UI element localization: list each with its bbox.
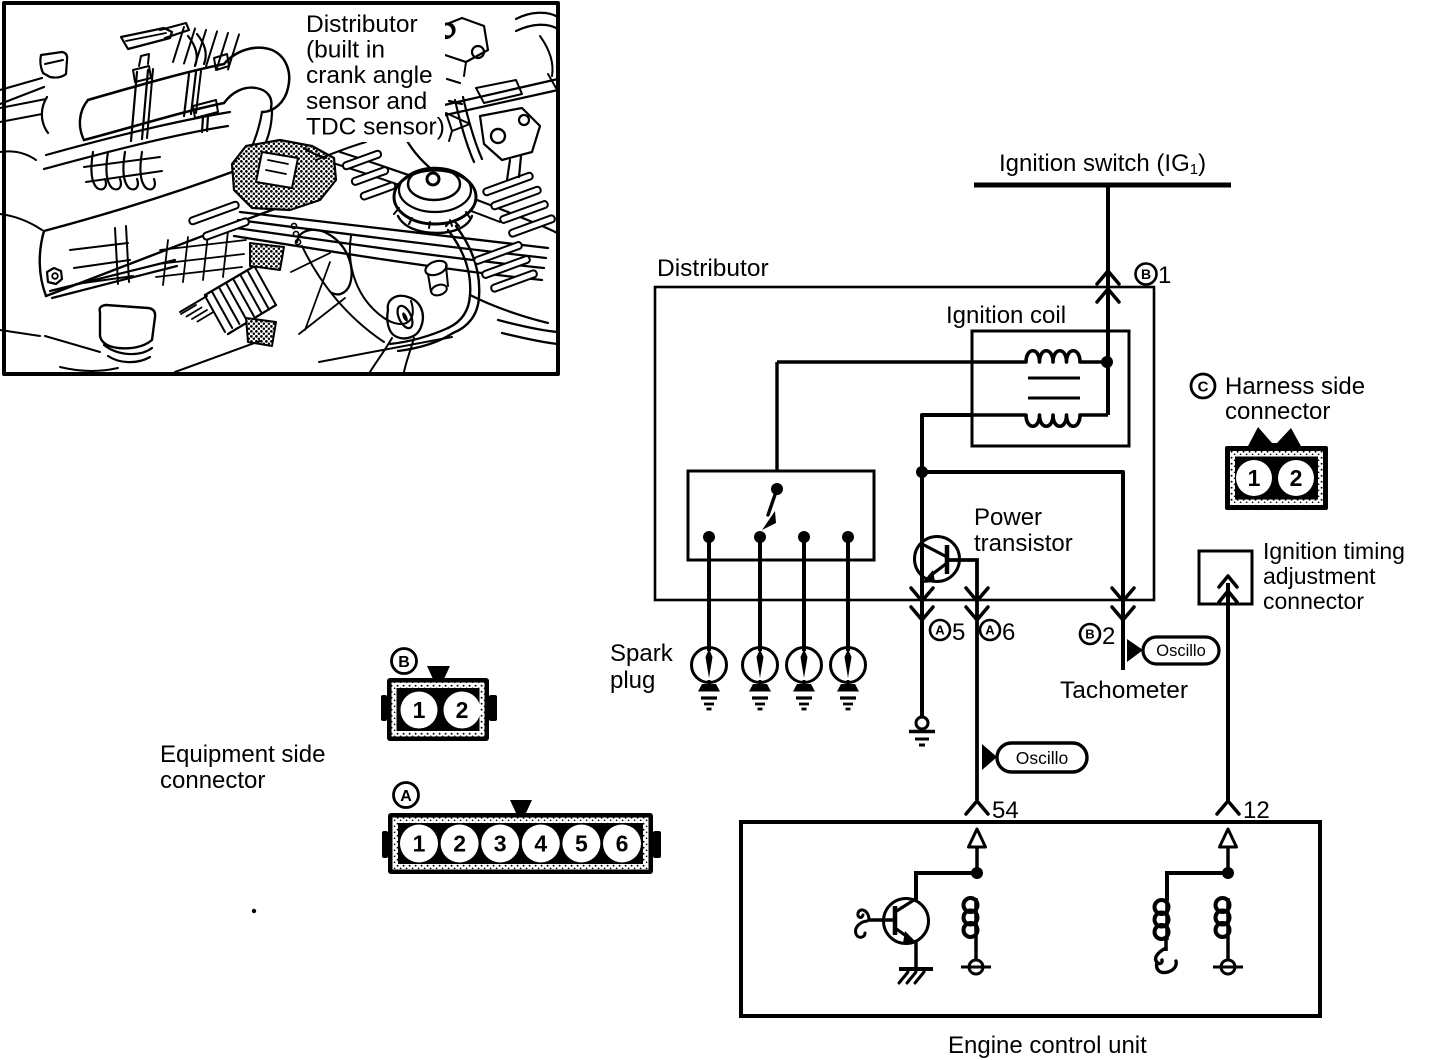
svg-text:Ignition switch (IG1): Ignition switch (IG1) bbox=[999, 150, 1206, 178]
ECU transistor base lead bbox=[869, 918, 895, 921]
svg-text:2: 2 bbox=[453, 831, 466, 857]
ECU transistor bbox=[884, 899, 929, 944]
ignition coil primary winding bbox=[777, 351, 1104, 362]
svg-text:54: 54 bbox=[992, 797, 1019, 824]
terminal at R1 bbox=[969, 960, 983, 974]
svg-text:C: C bbox=[1198, 378, 1209, 395]
rotor box bbox=[688, 471, 874, 560]
svg-text:Harness side: Harness side bbox=[1225, 373, 1365, 400]
ECU resistor R1 bbox=[974, 898, 978, 938]
wire pin12 to node bbox=[1226, 847, 1230, 873]
svg-text:transistor: transistor bbox=[974, 530, 1073, 557]
distributor body (dark) bbox=[232, 140, 336, 210]
oscillo probe tag at B2 wire bbox=[1127, 639, 1143, 662]
label A6 bbox=[980, 620, 1000, 640]
label B (equipment connector) bbox=[392, 649, 417, 674]
svg-text:6: 6 bbox=[1002, 619, 1015, 646]
power transistor symbol bbox=[915, 537, 960, 582]
terminal at R3 bbox=[1221, 960, 1235, 974]
ECU resistor R3 bbox=[1226, 898, 1230, 938]
svg-text:Tachometer: Tachometer bbox=[1060, 677, 1188, 704]
stray scan dot bbox=[252, 909, 256, 913]
label B2 bbox=[1080, 624, 1100, 644]
svg-text:2: 2 bbox=[456, 697, 469, 723]
wire node to transistor collector bbox=[916, 873, 977, 900]
svg-text:(built in: (built in bbox=[306, 37, 385, 64]
node: transistor junction bbox=[916, 466, 928, 478]
photo frame bbox=[4, 3, 558, 374]
connector arrows A5 bbox=[911, 588, 933, 601]
connector arrow B1 (double chevron) bbox=[1097, 271, 1119, 284]
harness connector C bbox=[1247, 427, 1302, 448]
svg-text:Equipment side: Equipment side bbox=[160, 741, 325, 768]
wire: pin 12 to timing connector bbox=[1226, 583, 1230, 801]
wire: collector out to A6 bbox=[947, 560, 977, 800]
svg-text:6: 6 bbox=[616, 831, 629, 857]
spark plugs bbox=[692, 648, 727, 683]
svg-text:5: 5 bbox=[575, 831, 588, 857]
svg-text:A: A bbox=[985, 623, 995, 638]
svg-text:crank angle: crank angle bbox=[306, 62, 433, 89]
equipment connector B bbox=[427, 666, 450, 679]
svg-text:Ignition coil: Ignition coil bbox=[946, 302, 1066, 329]
connector arrows B2 bbox=[1112, 588, 1134, 601]
ECU resistor R2 bbox=[1165, 900, 1169, 940]
spark plug wires bbox=[240, 212, 548, 248]
label B1 bbox=[1136, 264, 1157, 285]
svg-text:A: A bbox=[400, 788, 412, 805]
svg-text:connector: connector bbox=[1263, 588, 1364, 614]
svg-text:1: 1 bbox=[1248, 465, 1261, 491]
spark plug wires bbox=[707, 537, 711, 651]
distributor box bbox=[655, 287, 1154, 600]
wire: coil primary to rotor bbox=[775, 362, 778, 471]
pin 54 input triangle bbox=[969, 829, 986, 847]
wire: secondary to power transistor bbox=[922, 415, 972, 472]
wire node to R2 bbox=[1167, 873, 1228, 900]
ground: power transistor emitter body ground bbox=[916, 717, 928, 729]
svg-text:Engine control unit: Engine control unit bbox=[948, 1032, 1147, 1059]
pin 12 input triangle bbox=[1220, 829, 1237, 847]
node 54 bbox=[971, 867, 983, 879]
equipment connector A bbox=[510, 800, 532, 813]
engine bay photo inset bbox=[0, 2, 558, 374]
svg-text:3: 3 bbox=[494, 831, 507, 857]
svg-text:12: 12 bbox=[1243, 797, 1270, 824]
connector arrows A6 bbox=[966, 588, 988, 601]
oscillo probe tag at A6 wire bbox=[982, 744, 997, 770]
label A5 bbox=[930, 620, 950, 640]
svg-text:sensor and: sensor and bbox=[306, 88, 427, 115]
rotor arm bbox=[771, 483, 783, 495]
svg-text:TDC sensor): TDC sensor) bbox=[306, 113, 445, 140]
oil filler cap bbox=[394, 170, 476, 224]
svg-text:1: 1 bbox=[413, 697, 426, 723]
label C (harness connector) bbox=[1191, 374, 1215, 398]
svg-text:B: B bbox=[398, 654, 410, 671]
svg-text:Distributor: Distributor bbox=[306, 11, 418, 38]
node 12 bbox=[1222, 867, 1234, 879]
svg-text:connector: connector bbox=[1225, 398, 1330, 425]
coil core lines bbox=[1028, 377, 1080, 380]
svg-text:Distributor: Distributor bbox=[657, 255, 769, 282]
svg-text:Oscillo: Oscillo bbox=[1156, 642, 1206, 660]
throttle linkage bbox=[437, 18, 488, 62]
svg-text:B: B bbox=[1141, 266, 1151, 282]
svg-text:5: 5 bbox=[952, 619, 965, 646]
ECU chassis ground bbox=[899, 967, 933, 971]
svg-text:Power: Power bbox=[974, 504, 1042, 531]
ignition coil box bbox=[972, 331, 1129, 446]
pin 54 chevron bbox=[966, 801, 988, 814]
wire: ignition switch to coil bbox=[1106, 185, 1110, 415]
wire: emitter down through A5 bbox=[920, 472, 924, 716]
pin 12 chevron bbox=[1217, 801, 1239, 814]
svg-text:1: 1 bbox=[413, 831, 426, 857]
label A (equipment connector) bbox=[394, 783, 419, 808]
svg-text:1: 1 bbox=[1158, 262, 1171, 289]
wire pin54 to node bbox=[975, 847, 979, 873]
svg-text:4: 4 bbox=[534, 831, 547, 857]
svg-text:B: B bbox=[1085, 627, 1094, 642]
svg-text:connector: connector bbox=[160, 767, 265, 794]
svg-text:adjustment: adjustment bbox=[1263, 563, 1376, 589]
engine control unit box bbox=[741, 822, 1320, 1016]
svg-text:A: A bbox=[935, 623, 945, 638]
svg-text:Ignition timing: Ignition timing bbox=[1263, 538, 1405, 564]
svg-text:2: 2 bbox=[1290, 465, 1303, 491]
svg-text:Spark: Spark bbox=[610, 640, 674, 667]
ignition timing adjustment connector box bbox=[1199, 551, 1252, 604]
node: coil B+ junction bbox=[1101, 356, 1113, 368]
ignition coil secondary winding bbox=[972, 415, 1108, 426]
rotor terminals bbox=[703, 531, 715, 543]
svg-text:2: 2 bbox=[1102, 623, 1115, 650]
svg-text:plug: plug bbox=[610, 667, 655, 694]
wire: junction to tachometer branch bbox=[922, 472, 1123, 670]
svg-text:Oscillo: Oscillo bbox=[1016, 748, 1069, 768]
ignition switch bus bar bbox=[974, 183, 1231, 188]
loose lead below R2 bbox=[1156, 948, 1166, 964]
